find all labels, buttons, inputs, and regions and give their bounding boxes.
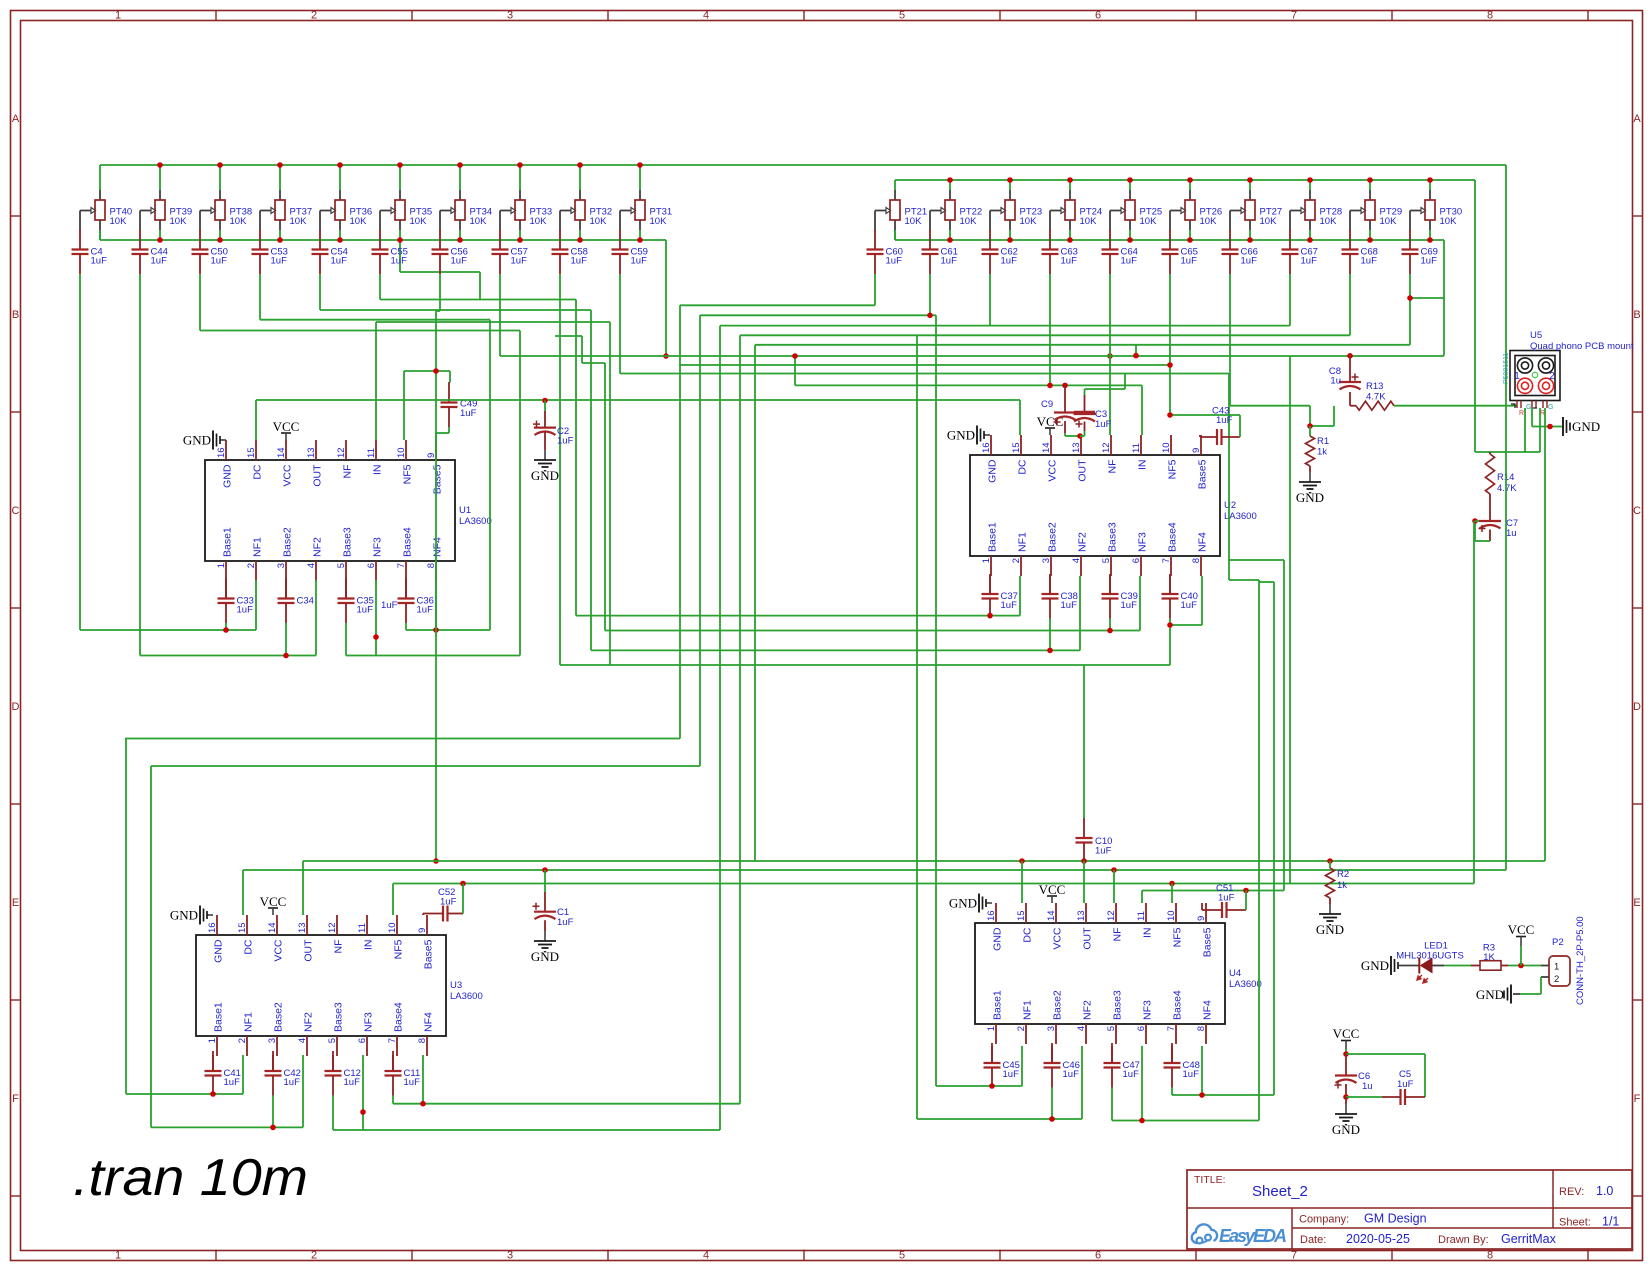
svg-text:VCC: VCC [1052,927,1064,950]
capacitor C35 1uF at U1 pin5 [338,579,374,624]
svg-text:Base1: Base1 [213,1002,225,1032]
svg-text:12: 12 [327,922,338,933]
svg-text:R: R [1519,410,1524,417]
svg-text:6: 6 [357,1038,368,1043]
svg-text:NF3: NF3 [363,1012,375,1032]
svg-text:1uF: 1uF [1123,1069,1140,1080]
wire - y452 link (R14 top / U5 pins) [1475,451,1540,453]
svg-text:1uF: 1uF [1095,419,1112,430]
wire + junction - top bus drop to PT32 [577,162,583,190]
svg-text:1uF: 1uF [1301,256,1318,267]
ground - R1 [1296,466,1324,505]
wire + junction - top bus drop to PT36 [337,162,343,190]
wire + junction - top bus drop to PT35 [397,162,403,190]
wire - riser pair to U4 [1229,374,1259,1121]
svg-text:4.7K: 4.7K [1366,392,1386,403]
svg-text:NF2: NF2 [303,1012,315,1032]
svg-text:10K: 10K [470,216,488,227]
svg-text:1uF: 1uF [1003,1069,1020,1080]
svg-text:NF4: NF4 [423,1012,435,1032]
svg-text:6: 6 [1095,1250,1101,1262]
svg-text:7: 7 [387,1038,398,1043]
wire - U5 signal drop to R2 line [1544,408,1546,861]
capacitor C41 1uF at U3 pin1 [205,1051,241,1096]
wire - C3 top riser to y373 [1085,373,1126,395]
wire - U3 bus1 (C41/pin2 + riser from PT net) [126,739,243,1097]
potentiometer PT37 10K [260,190,312,230]
svg-text:NF1: NF1 [1017,532,1029,552]
svg-text:14: 14 [267,922,278,933]
svg-text:GND: GND [949,896,977,911]
svg-text:1uF: 1uF [941,256,958,267]
svg-text:5: 5 [327,1038,338,1043]
svg-text:Base1: Base1 [987,522,999,552]
svg-text:1uF: 1uF [1218,893,1235,904]
diode LED1 MHL3016UGTS [1396,941,1464,984]
wire - right pot bus2 drop x1475 [1474,180,1476,452]
resistor R1 1k [1306,426,1330,466]
svg-text:1uF: 1uF [1181,256,1198,267]
svg-text:E: E [12,897,19,909]
svg-text:4: 4 [703,10,709,22]
connector U5 Quad phono PCB mount [1503,330,1634,417]
capacitor C62 1uF [982,230,1018,275]
svg-text:2: 2 [1549,371,1555,382]
svg-text:13: 13 [1076,910,1087,921]
power VCC - C6 [1333,1026,1360,1054]
svg-text:8: 8 [1196,1026,1207,1031]
wire - C6 bottom node [1343,1094,1382,1100]
svg-text:14: 14 [276,447,287,458]
svg-text:D: D [1633,701,1641,713]
resistor R2 1k [1326,861,1350,898]
wire - U4 bus4 (C48/pin8) [1172,1046,1274,1098]
potentiometer PT28 10K [1290,190,1342,230]
svg-text:8: 8 [1487,10,1493,22]
capacitor C37 1uF at U2 pin1 [982,574,1018,619]
svg-text:5: 5 [1101,558,1112,563]
wire - PT34 bottom to bus [457,230,463,243]
potentiometer PT25 10K [1110,190,1162,230]
svg-text:A: A [1633,113,1641,125]
svg-text:OUT: OUT [312,464,324,487]
wire - C69 net y345 line [755,274,1444,861]
wire - C44 net down to U1 bus2 [139,274,141,656]
potentiometer PT40 10K [80,190,132,230]
wire - C57 net down to y356 line [500,274,1113,359]
wire - R13 to U5 pin [1394,405,1517,407]
svg-text:1uF: 1uF [284,1077,301,1088]
svg-text:VCC: VCC [1333,1026,1360,1041]
svg-text:GND: GND [1572,419,1600,434]
svg-text:12: 12 [1106,910,1117,921]
svg-text:1uF: 1uF [1361,256,1378,267]
svg-text:TITLE:: TITLE: [1194,1174,1226,1186]
svg-text:5: 5 [336,563,347,568]
svg-text:Base4: Base4 [393,1002,405,1032]
wire - U5 ground pins to GND [1532,408,1563,429]
wire - PT32 bottom to bus [577,230,583,243]
potentiometer PT23 10K [990,190,1042,230]
svg-text:1uF: 1uF [1063,1069,1080,1080]
wire - node C7 drop to y883 line [1473,521,1475,884]
node A junction pin10/C49/C56 and drop to OUT line [404,368,450,864]
svg-text:15: 15 [237,922,248,933]
svg-text:GND: GND [531,949,559,964]
svg-text:10K: 10K [1260,216,1278,227]
svg-text:3: 3 [1046,1026,1057,1031]
svg-text:1: 1 [216,563,227,568]
wire - VCC node to C5 loop [1343,1051,1425,1097]
capacitor C3 1uF polarized [1074,395,1112,431]
svg-text:14: 14 [1041,442,1052,453]
wire + junction - right top bus drop to PT22 [947,177,953,190]
wire - C66 net down to R1 feed line [1230,274,1310,406]
resistor R3 1K [1471,943,1508,971]
svg-text:10K: 10K [110,216,128,227]
wire - U1 bus1 (C4/C33/pin2) [80,580,256,633]
svg-text:OUT: OUT [1077,459,1089,482]
capacitor C10 1uF [1076,665,1113,861]
svg-text:Base3: Base3 [333,1002,345,1032]
svg-text:Base5: Base5 [1202,927,1214,957]
wire - pot top bus drop right side x1506 [1505,165,1507,870]
svg-text:IN: IN [363,940,375,951]
potentiometer PT33 10K [500,190,552,230]
svg-text:4: 4 [1076,1026,1087,1031]
svg-text:GND: GND [1316,922,1344,937]
capacitor C11 1uF at U3 pin7 [385,1051,421,1096]
capacitor C59 1uF [612,230,648,275]
potentiometer PT35 10K [380,190,432,230]
svg-text:GND: GND [947,428,975,443]
svg-text:Date:: Date: [1300,1234,1326,1246]
wire - U3 bus4 (C11/pin8) [393,1055,740,1106]
wire + junction - top bus drop to PT38 [217,162,223,190]
svg-text:B: B [1633,309,1640,321]
svg-text:A: A [12,113,20,125]
wire - U3 bus2 long line [151,765,700,767]
svg-text:9: 9 [1196,916,1207,921]
svg-text:Quad phono PCB mount: Quad phono PCB mount [1530,341,1634,352]
wire - line y883 (U3 pin10 / C52 / C7 node) [393,881,1474,915]
potentiometer PT27 10K [1230,190,1282,230]
wire - PT38 bottom to bus [217,230,223,243]
capacitor C47 1uF at U4 pin5 [1104,1043,1140,1088]
svg-text:1uF: 1uF [1397,1079,1414,1090]
svg-text:10K: 10K [1020,216,1038,227]
wire - U4 pin11 riser and C51 line [1142,888,1284,903]
wire - U3 bus2 (C42/pin4 + riser) [151,766,303,1130]
wire - U4 bus2 (C46/pin4) [917,1046,1082,1122]
wire + junction - top bus drop to PT37 [277,162,283,190]
svg-text:16: 16 [216,447,227,458]
svg-text:1uF: 1uF [1421,256,1438,267]
svg-text:1: 1 [115,10,121,22]
svg-text:1uF: 1uF [460,408,477,419]
svg-text:GND: GND [213,939,225,963]
svg-text:14: 14 [1046,910,1057,921]
svg-text:3: 3 [267,1038,278,1043]
wire - U1 pin11 riser to y322 line [376,322,610,665]
wire - C43 right loop to U2 pin10 node [1167,412,1240,437]
svg-text:1uF: 1uF [1061,256,1078,267]
svg-text:10K: 10K [1320,216,1338,227]
svg-text:EasyEDA: EasyEDA [1219,1226,1287,1246]
capacitor C58 1uF [552,230,588,275]
wire - C9 bottom to OUT node [1065,433,1083,439]
svg-text:U1: U1 [459,505,471,516]
svg-text:1uF: 1uF [1001,600,1018,611]
svg-text:Base3: Base3 [342,527,354,557]
wire - long drop x1290 [1289,356,1291,884]
svg-text:R13: R13 [1366,381,1383,392]
wire - C68 net y335 staircase to U3 bus4 [740,274,1350,1104]
wire + junction - right top bus drop to PT29 [1367,177,1373,190]
svg-text:10K: 10K [230,216,248,227]
wire - C56 net down to node A (pin10/C49) [436,274,440,371]
svg-text:U3: U3 [450,980,462,991]
potentiometer PT32 10K [560,190,612,230]
svg-text:6: 6 [1136,1026,1147,1031]
svg-text:4: 4 [703,1250,709,1262]
svg-text:NF5: NF5 [1167,459,1179,479]
svg-text:7: 7 [1291,10,1297,22]
svg-text:1u: 1u [1362,1081,1373,1092]
capacitor C57 1uF [492,230,528,275]
wire - C50 net to x520 riser to U1 bus3 [200,274,520,656]
svg-text:NF2: NF2 [1077,532,1089,552]
capacitor C2 1uF polarized [533,401,574,451]
wire - C55 net to U2 bus1 [380,274,576,616]
svg-text:GND: GND [531,468,559,483]
svg-text:1uF: 1uF [1121,256,1138,267]
svg-text:DC: DC [1017,459,1029,475]
ground - LED1 [1361,956,1398,975]
svg-text:7: 7 [1166,1026,1177,1031]
svg-text:IN: IN [1142,928,1154,939]
svg-text:U4: U4 [1229,968,1241,979]
svg-text:GND: GND [1476,987,1504,1002]
svg-text:IN: IN [372,465,384,476]
op-amp U2 LA3600 graphic equalizer IC [970,435,1257,576]
svg-text:IN: IN [1137,460,1149,471]
svg-text:6: 6 [1095,10,1101,22]
wire - x917 vertical to U4 bus2 [916,335,918,1119]
svg-text:VCC: VCC [273,419,300,434]
connector P2 CONN-TH_2P-P5.00 [1541,916,1586,1005]
svg-text:10K: 10K [1140,216,1158,227]
svg-text:1uF: 1uF [631,256,648,267]
wire - U5 pin drops to y452 [1525,408,1540,452]
svg-text:Sheet:: Sheet: [1559,1217,1591,1229]
svg-text:NF1: NF1 [1022,1000,1034,1020]
wire - C65 net down to U2 pin10 node [680,274,1173,415]
wire + junction - right top bus drop to PT30 [1427,177,1433,190]
svg-text:1uF: 1uF [151,256,168,267]
svg-text:7: 7 [1291,1250,1297,1262]
svg-text:10K: 10K [530,216,548,227]
svg-text:NF: NF [1107,460,1119,474]
wire - U2 bus2 (C38? no - pin6/C39 bus) [555,336,1140,633]
svg-text:1uF: 1uF [886,256,903,267]
capacitor C64 1uF [1102,230,1138,275]
svg-text:NF3: NF3 [1137,532,1149,552]
svg-text:C34: C34 [297,595,314,606]
wire + junction - right top bus drop to PT23 [1007,177,1013,190]
potentiometer PT21 10K [875,190,927,230]
svg-text:7: 7 [396,563,407,568]
wire - PT40 bottom to bus [99,230,101,240]
op-amp U4 LA3600 graphic equalizer IC [975,903,1262,1044]
wire - PT27 bottom to bus [1247,230,1253,243]
potentiometer PT39 10K [140,190,192,230]
svg-text:10K: 10K [350,216,368,227]
svg-text:P2: P2 [1552,937,1564,948]
capacitor C69 1uF [1402,230,1438,275]
spice directive .tran 10m [73,1149,308,1207]
wire - C54 net to U2 bus3 [320,274,591,650]
svg-text:12: 12 [336,447,347,458]
resistor R14 4.7K [1486,452,1518,521]
svg-text:F: F [12,1093,19,1105]
wire - C60 net staircase to U3 bus1 [680,274,875,739]
ground - U1 pin16 [183,431,226,450]
svg-text:9: 9 [417,928,428,933]
capacitor C45 1uF at U4 pin1 [984,1043,1020,1088]
svg-text:10K: 10K [960,216,978,227]
wire + junction - right top bus drop to PT26 [1187,177,1193,190]
capacitor C33 1uF at U1 pin1 [218,579,254,624]
wire - DC bias line U1 pin15 / C2 / U2 pin15 [256,398,1020,440]
capacitor C52 1uF rotated [423,887,463,922]
svg-text:1: 1 [115,1250,121,1262]
wire - left pot group bottom bus [100,230,666,300]
capacitor C68 1uF [1342,230,1378,275]
capacitor C6 1u polarized [1335,1054,1373,1097]
svg-text:U2: U2 [1224,500,1236,511]
svg-text:1uF: 1uF [1061,600,1078,611]
svg-text:VCC: VCC [260,894,287,909]
wire - left pot group top bus (net to all PT tops) [100,165,1506,190]
svg-text:NF: NF [333,940,345,954]
wire - P2 pin2 to GND [1520,977,1541,994]
capacitor C63 1uF [1042,230,1078,275]
svg-text:1.0: 1.0 [1596,1184,1613,1198]
wire - U1 bus4 (C53/C36/pin8) [406,580,490,633]
svg-text:4: 4 [1071,558,1082,563]
svg-text:GND: GND [1296,490,1324,505]
svg-text:GerritMax: GerritMax [1501,1232,1557,1246]
wire - U1 bus2 (C44/C34/pin4) [140,580,316,658]
svg-text:R1: R1 [1317,436,1329,447]
capacitor C12 1uF at U3 pin5 [325,1051,361,1096]
potentiometer PT34 10K [440,190,492,230]
svg-text:6: 6 [1131,558,1142,563]
svg-text:NF2: NF2 [1082,1000,1094,1020]
svg-text:1: 1 [1514,371,1520,382]
svg-text:NF1: NF1 [243,1012,255,1032]
title block [1187,1170,1632,1249]
wire - C7 bottom loop and node [1472,518,1490,541]
capacitor C66 1uF [1222,230,1258,275]
svg-text:1uF: 1uF [571,256,588,267]
svg-text:3: 3 [276,563,287,568]
svg-text:NF5: NF5 [1172,927,1184,947]
svg-text:16: 16 [981,442,992,453]
svg-text:Sheet_2: Sheet_2 [1252,1183,1308,1200]
svg-text:GND: GND [222,464,234,488]
svg-text:Base2: Base2 [282,527,294,557]
svg-text:GND: GND [1361,958,1389,973]
wire - U2 bus4 (C40/pin8/C58 net) [1167,576,1202,665]
svg-text:Base5: Base5 [432,464,444,494]
svg-text:11: 11 [1136,911,1147,921]
svg-text:REV:: REV: [1559,1186,1584,1198]
svg-text:F: F [1634,1093,1641,1105]
potentiometer PT31 10K [620,190,672,230]
svg-text:1uF: 1uF [381,600,398,611]
capacitor C36 1uF at U1 pin7 [398,579,434,624]
svg-text:Base2: Base2 [273,1002,285,1032]
potentiometer PT22 10K [930,190,982,230]
svg-text:11: 11 [357,923,368,933]
capacitor C61 1uF [922,230,958,275]
svg-text:1k: 1k [1317,447,1327,458]
svg-text:1uF: 1uF [404,1077,421,1088]
wire + junction - top bus drop to PT39 [157,162,163,190]
wire + junction - right top bus drop to PT25 [1127,177,1133,190]
svg-text:1: 1 [1554,962,1559,973]
svg-text:1uF: 1uF [1216,415,1233,426]
svg-text:C9: C9 [1041,399,1053,410]
svg-text:1uF: 1uF [1001,256,1018,267]
svg-text:NF4: NF4 [1202,1000,1214,1020]
svg-text:DC: DC [1022,927,1034,943]
wire - PT30 bottom to bus [1427,230,1433,243]
capacitor C42 1uF at U3 pin3 [265,1051,301,1096]
wire - PT24 bottom to bus [1067,230,1073,243]
potentiometer PT29 10K [1350,190,1402,230]
svg-text:1uF: 1uF [357,605,374,616]
svg-text:6: 6 [366,563,377,568]
capacitor C43 1uF rotated [1200,406,1240,446]
capacitor C46 1uF at U4 pin3 [1044,1043,1080,1088]
svg-text:Base4: Base4 [402,527,414,557]
wire - line y861 (U3 pin13 / C10 / R2 / U5) [303,858,1545,915]
svg-text:1: 1 [986,1026,997,1031]
svg-text:1uF: 1uF [1121,600,1138,611]
ground - R2 [1316,898,1344,937]
EasyEDA logo [1192,1224,1287,1246]
svg-text:VCC: VCC [1047,459,1059,482]
svg-text:G: G [1548,404,1553,411]
svg-text:OUT: OUT [303,939,315,962]
svg-text:LA3600: LA3600 [1229,979,1262,990]
wire - right pot group bottom bus [895,230,1444,240]
svg-text:GND: GND [992,927,1004,951]
wire - PT33 bottom to bus [517,230,523,243]
svg-text:2: 2 [311,1250,317,1262]
svg-text:1uF: 1uF [344,1077,361,1088]
svg-text:3: 3 [1041,558,1052,563]
power VCC - U2 pin14 [1037,414,1064,435]
svg-text:DC: DC [252,464,264,480]
svg-text:10: 10 [1161,442,1172,453]
wire - right vertical to C51 line [1229,560,1284,891]
svg-text:GM Design: GM Design [1364,1212,1427,1226]
capacitor C34 at U1 pin3 [278,579,314,624]
